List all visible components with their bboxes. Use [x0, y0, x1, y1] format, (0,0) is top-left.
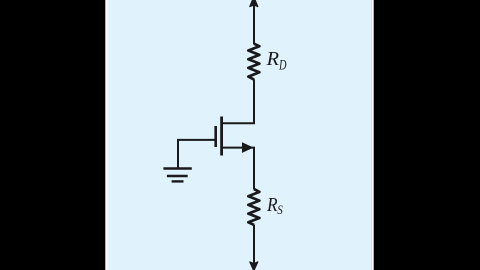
source arrowhead of Q1 — [242, 143, 252, 152]
transistor Q1 gate bar — [214, 126, 217, 147]
wire: gate to ground — [178, 140, 215, 168]
wire: source lead with corner down — [223, 148, 255, 190]
wire: RD to drain, corner into MOSFET drain — [223, 79, 255, 123]
ground symbol — [163, 169, 191, 182]
svg-text:R: R — [266, 195, 278, 216]
resistor RS zigzag — [248, 189, 259, 225]
wire: RS to bottom — [253, 225, 255, 264]
VDD up arrowhead — [250, 0, 258, 7]
resistor RD zigzag — [248, 44, 259, 80]
svg-text:R: R — [266, 48, 279, 70]
wire: top supply to RD — [253, 5, 255, 45]
transistor Q1 channel bar — [220, 117, 223, 156]
bottom down arrowhead — [250, 262, 258, 270]
svg-text:S: S — [277, 203, 283, 217]
svg-text:D: D — [278, 57, 287, 73]
